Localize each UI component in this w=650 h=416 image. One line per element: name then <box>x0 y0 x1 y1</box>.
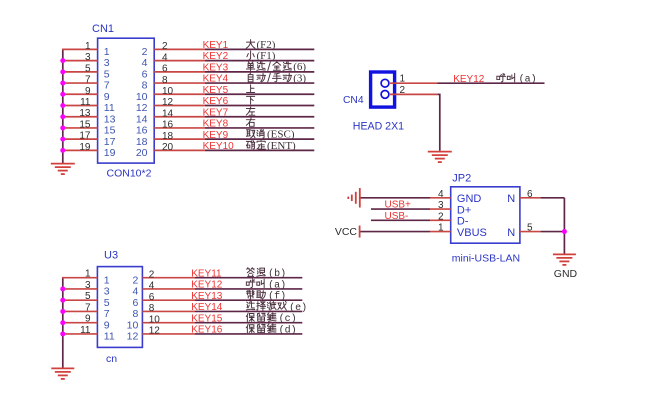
svg-text:(b): (b) <box>268 268 286 280</box>
svg-text:18: 18 <box>136 136 148 148</box>
svg-text:2: 2 <box>162 41 168 52</box>
svg-text:N: N <box>507 227 515 239</box>
svg-text:KEY12: KEY12 <box>191 280 223 291</box>
svg-text:2: 2 <box>132 274 138 286</box>
svg-text:6: 6 <box>132 297 138 309</box>
svg-text:12: 12 <box>127 331 139 343</box>
svg-text:19: 19 <box>104 147 116 159</box>
svg-text:4: 4 <box>142 57 148 69</box>
svg-text:1: 1 <box>104 274 110 286</box>
svg-text:1: 1 <box>85 269 91 280</box>
svg-text:5: 5 <box>104 297 110 309</box>
svg-text:13: 13 <box>104 113 116 125</box>
svg-text:10: 10 <box>149 314 161 325</box>
svg-text:5: 5 <box>85 63 91 74</box>
svg-text:6: 6 <box>142 68 148 80</box>
svg-text:CN1: CN1 <box>92 23 114 35</box>
svg-text:KEY13: KEY13 <box>191 291 223 302</box>
svg-text:11: 11 <box>104 331 115 343</box>
svg-text:KEY12: KEY12 <box>453 74 485 85</box>
svg-text:(e): (e) <box>289 302 307 314</box>
svg-text:17: 17 <box>79 131 91 142</box>
svg-text:GND: GND <box>457 193 482 205</box>
svg-text:(6): (6) <box>293 61 306 73</box>
svg-text:KEY1: KEY1 <box>203 40 229 51</box>
svg-text:9: 9 <box>104 91 110 103</box>
svg-text:11: 11 <box>104 102 115 114</box>
svg-text:9: 9 <box>104 319 110 331</box>
svg-text:11: 11 <box>80 97 91 108</box>
svg-text:VCC: VCC <box>335 226 358 238</box>
svg-text:USB+: USB+ <box>385 200 412 211</box>
svg-text:17: 17 <box>104 136 116 148</box>
svg-text:9: 9 <box>85 314 91 325</box>
svg-text:7: 7 <box>85 302 91 313</box>
svg-text:8: 8 <box>132 308 138 320</box>
svg-text:U3: U3 <box>104 250 118 262</box>
svg-text:(a): (a) <box>519 74 537 86</box>
svg-text:9: 9 <box>85 86 91 97</box>
svg-text:mini-USB-LAN: mini-USB-LAN <box>452 253 520 265</box>
svg-text:10: 10 <box>162 86 174 97</box>
svg-text:20: 20 <box>162 142 174 153</box>
svg-text:D+: D+ <box>457 204 471 216</box>
svg-text:KEY10: KEY10 <box>203 141 235 152</box>
svg-text:KEY5: KEY5 <box>203 85 229 96</box>
svg-text:7: 7 <box>85 75 91 86</box>
svg-text:18: 18 <box>162 131 174 142</box>
svg-text:2: 2 <box>149 269 155 280</box>
svg-text:KEY6: KEY6 <box>203 96 229 107</box>
svg-text:USB-: USB- <box>385 211 409 222</box>
svg-text:11: 11 <box>80 325 91 336</box>
svg-text:cn: cn <box>106 353 117 365</box>
svg-text:(ENT): (ENT) <box>267 140 296 152</box>
svg-text:8: 8 <box>142 80 148 92</box>
svg-text:5: 5 <box>104 68 110 80</box>
svg-text:(ESC): (ESC) <box>267 129 295 141</box>
svg-text:KEY2: KEY2 <box>203 51 229 62</box>
svg-text:(F2): (F2) <box>257 39 276 51</box>
svg-text:KEY15: KEY15 <box>191 313 223 324</box>
svg-text:CON10*2: CON10*2 <box>107 168 152 180</box>
svg-text:5: 5 <box>85 291 91 302</box>
svg-text:7: 7 <box>104 308 110 320</box>
svg-text:(f): (f) <box>268 291 286 303</box>
svg-text:D-: D- <box>457 216 469 228</box>
svg-text:16: 16 <box>162 120 174 131</box>
svg-text:(c): (c) <box>279 313 297 325</box>
svg-text:(d): (d) <box>279 324 297 336</box>
svg-text:5: 5 <box>527 223 533 234</box>
svg-text:KEY8: KEY8 <box>203 119 229 130</box>
svg-text:(3): (3) <box>293 72 306 84</box>
svg-text:JP2: JP2 <box>452 173 471 185</box>
svg-text:20: 20 <box>136 147 148 159</box>
svg-text:HEAD 2X1: HEAD 2X1 <box>353 121 404 133</box>
svg-text:4: 4 <box>162 52 168 63</box>
svg-text:KEY11: KEY11 <box>191 268 222 279</box>
svg-text:3: 3 <box>85 280 91 291</box>
svg-text:KEY7: KEY7 <box>203 107 229 118</box>
svg-text:10: 10 <box>127 319 139 331</box>
svg-text:3: 3 <box>104 286 110 298</box>
svg-text:KEY14: KEY14 <box>191 302 223 313</box>
svg-text:6: 6 <box>149 292 155 303</box>
svg-text:7: 7 <box>104 80 110 92</box>
svg-text:VBUS: VBUS <box>457 227 487 239</box>
svg-text:8: 8 <box>162 75 168 86</box>
svg-text:1: 1 <box>104 46 110 58</box>
svg-text:KEY3: KEY3 <box>203 62 229 73</box>
svg-text:(F1): (F1) <box>257 50 276 62</box>
svg-text:KEY16: KEY16 <box>191 325 223 336</box>
svg-text:(a): (a) <box>268 279 286 291</box>
svg-text:19: 19 <box>79 142 91 153</box>
svg-text:16: 16 <box>136 125 148 137</box>
svg-text:4: 4 <box>149 281 155 292</box>
svg-text:N: N <box>507 193 515 205</box>
svg-text:14: 14 <box>162 108 174 119</box>
svg-text:4: 4 <box>438 189 444 200</box>
svg-text:4: 4 <box>132 286 138 298</box>
svg-text:15: 15 <box>79 119 91 130</box>
svg-text:3: 3 <box>104 57 110 69</box>
svg-text:2: 2 <box>438 211 444 222</box>
svg-text:2: 2 <box>400 85 406 96</box>
svg-text:13: 13 <box>79 108 91 119</box>
svg-text:1: 1 <box>438 223 444 234</box>
svg-text:12: 12 <box>136 102 148 114</box>
svg-text:KEY4: KEY4 <box>203 74 229 85</box>
svg-text:1: 1 <box>400 74 406 85</box>
svg-text:GND: GND <box>554 268 578 280</box>
svg-text:8: 8 <box>149 303 155 314</box>
svg-text:12: 12 <box>162 97 174 108</box>
svg-text:10: 10 <box>136 91 148 103</box>
svg-text:15: 15 <box>104 125 116 137</box>
svg-text:CN4: CN4 <box>343 95 364 106</box>
svg-text:1: 1 <box>85 41 91 52</box>
svg-text:6: 6 <box>527 189 533 200</box>
svg-text:6: 6 <box>162 64 168 75</box>
svg-text:KEY9: KEY9 <box>203 130 229 141</box>
svg-text:2: 2 <box>142 46 148 58</box>
svg-text:12: 12 <box>149 326 161 337</box>
svg-text:3: 3 <box>438 200 444 211</box>
svg-text:14: 14 <box>136 113 148 125</box>
svg-text:3: 3 <box>85 52 91 63</box>
